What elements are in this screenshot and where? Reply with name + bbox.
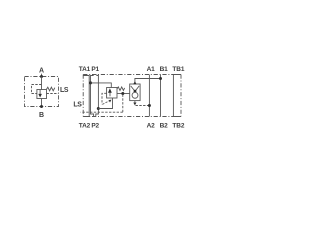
- compensator valve body: [107, 88, 117, 99]
- compensator pilot (dashed, left face down): [102, 93, 107, 104]
- valve V1 body: [37, 90, 47, 99]
- svg-text:LS: LS: [73, 102, 82, 109]
- wire A to valve: [41, 77, 43, 90]
- svg-text:A1: A1: [147, 66, 155, 73]
- wire valve to B: [41, 99, 43, 107]
- check valve seat vertex dot: [134, 90, 137, 93]
- node on A line: [148, 104, 151, 107]
- svg-text:A: A: [39, 68, 44, 75]
- TB gallery rectangle: [173, 75, 181, 117]
- compensator flow arrow (up): [109, 92, 111, 96]
- pilot line (dashed, taps line above valve to left side): [32, 85, 42, 94]
- svg-text:P1: P1: [91, 66, 99, 73]
- B line (B1-B2): [160, 75, 162, 117]
- svg-text:B1: B1: [160, 66, 168, 73]
- plate enclosure left edge (dash-dot, also TA gallery left wall): [82, 75, 84, 117]
- pilot oblique arrow: [102, 101, 109, 105]
- svg-text:A2: A2: [147, 122, 155, 129]
- spring: [47, 87, 55, 91]
- svg-text:TB2: TB2: [172, 122, 184, 129]
- A line (A1-A2): [148, 75, 150, 117]
- svg-text:B2: B2: [160, 122, 168, 129]
- svg-text:TA2: TA2: [79, 122, 91, 129]
- wire inlet tap to compensator: [91, 83, 112, 88]
- LS pilot line (dashed, down then left to LS port): [122, 95, 124, 113]
- plate enclosure right edge (dash-dot, also TB gallery right wall): [180, 75, 182, 117]
- svg-text:B: B: [39, 112, 44, 119]
- P gallery rectangle: [91, 75, 94, 117]
- svg-text:LS: LS: [60, 87, 69, 94]
- node A (port dot): [40, 75, 43, 78]
- drain arrow down: [133, 103, 136, 106]
- svg-text:TA1: TA1: [79, 66, 91, 73]
- node LS tap: [121, 92, 124, 95]
- check valve ball: [132, 92, 138, 98]
- check valve outlet wire (up, over to B line): [135, 79, 161, 85]
- node on P gallery (compensator inlet tap): [89, 81, 92, 84]
- compensator spring: [117, 87, 125, 91]
- plate enclosure bottom edge (dash-dot): [83, 116, 181, 118]
- enclosure (dash-dot box): [25, 77, 59, 107]
- svg-text:P2: P2: [91, 122, 99, 129]
- valve V1 flow arrow: [39, 90, 41, 94]
- check valve seat (V): [131, 86, 140, 91]
- LS pilot line (dashed): [47, 93, 59, 95]
- TA gallery rectangle: [83, 76, 89, 117]
- check valve drain stub: [134, 101, 136, 103]
- node on P gallery bottom-right (compensator outlet): [97, 107, 100, 110]
- wire compensator to check valve: [117, 93, 130, 95]
- check valve body: [130, 84, 140, 101]
- drain pilot line (dashed to A line): [136, 105, 150, 107]
- flow arrow up at check valve top: [133, 81, 136, 84]
- wire A stub: [41, 74, 43, 77]
- node B (port dot): [40, 105, 43, 108]
- node on B line: [159, 77, 162, 80]
- svg-text:TB1: TB1: [172, 66, 184, 73]
- plate enclosure top edge (dash-dot): [83, 74, 181, 76]
- wire outlet L-path under compensator: [98, 98, 112, 109]
